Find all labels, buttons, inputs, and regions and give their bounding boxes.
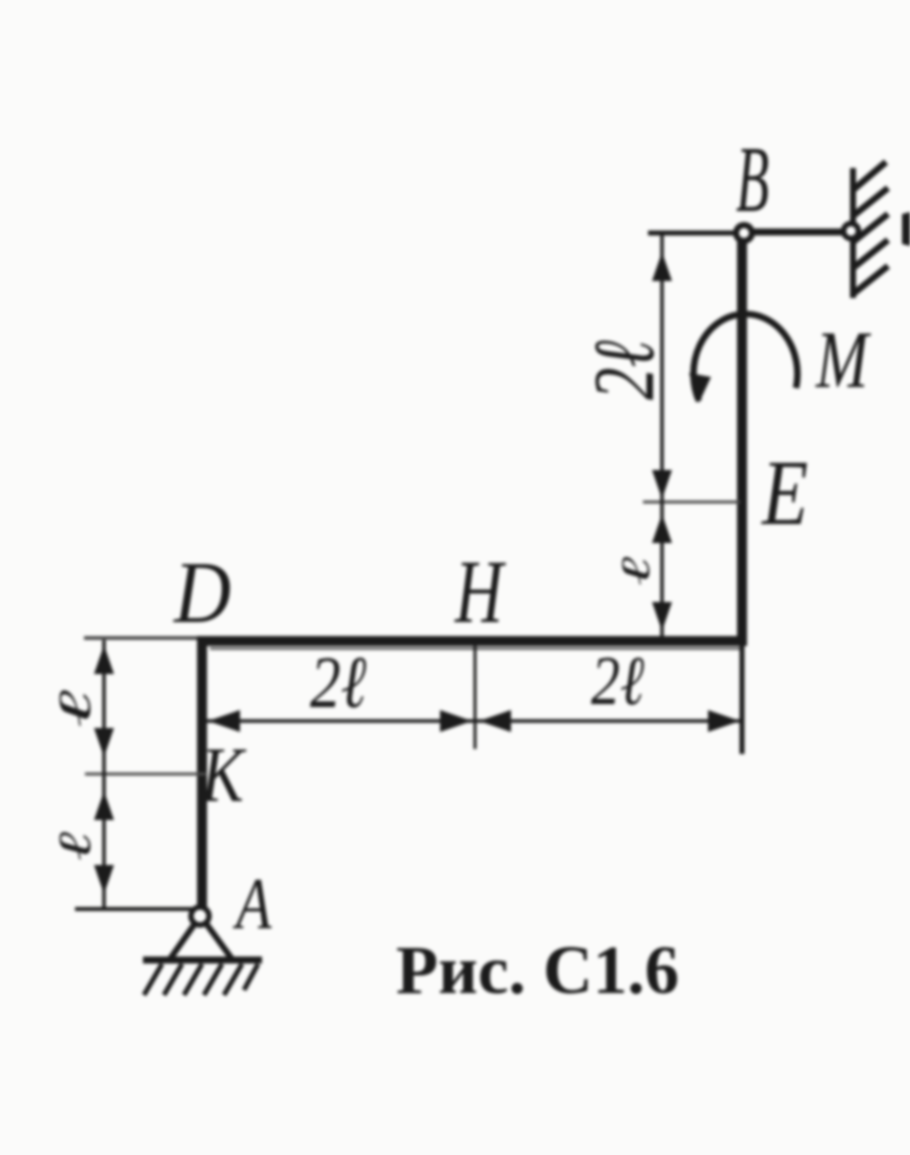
bar corner-B (right vertical member) (737, 233, 747, 645)
pin B (hinge circle) (736, 225, 752, 241)
svg-text:2ℓ: 2ℓ (310, 641, 367, 724)
bar AD (left vertical member) (197, 637, 207, 908)
arrow down to corner (652, 602, 672, 631)
moment M arrowhead (689, 373, 711, 403)
bar DH-corner (horizontal member) (197, 636, 747, 646)
tick at K level (85, 773, 206, 776)
arrow left from H (479, 710, 511, 732)
cut-off glyph at right edge (902, 212, 910, 246)
svg-text:B: B (736, 128, 769, 232)
arrow down to A level (94, 865, 114, 894)
svg-text:M: M (815, 314, 871, 405)
arrow up from K level (94, 791, 114, 820)
svg-text:E: E (761, 442, 808, 545)
svg-text:H: H (454, 544, 506, 643)
svg-text:ℓ: ℓ (614, 557, 659, 586)
arrow right to H (440, 710, 472, 732)
tick at A level (75, 907, 194, 911)
right dimension line B-corner (660, 235, 664, 639)
svg-text:2ℓ: 2ℓ (576, 340, 672, 400)
wall line (850, 168, 856, 298)
wall hatching (853, 162, 888, 294)
link rod B-wall (744, 229, 852, 236)
pin A circle (191, 907, 209, 925)
left dimension line (102, 640, 106, 907)
support A ground line (143, 957, 262, 964)
extension line at H (474, 645, 477, 749)
bottom dimension line D-corner (206, 719, 740, 723)
svg-text:A: A (232, 864, 272, 945)
svg-text:K: K (200, 732, 247, 818)
svg-text:Рис. С1.6: Рис. С1.6 (396, 932, 679, 1008)
arrow up from E level (652, 514, 672, 543)
scan ghost under horizontal bar (210, 647, 740, 650)
arrow right to corner (708, 710, 740, 732)
extension line below corner (740, 645, 745, 754)
support A triangle (170, 922, 232, 959)
svg-text:D: D (173, 544, 231, 642)
arrow up to D level (94, 645, 114, 674)
svg-text:ℓ: ℓ (49, 831, 100, 861)
svg-text:ℓ: ℓ (49, 690, 100, 728)
tick at E level (643, 501, 740, 504)
wall pin circle (844, 224, 859, 239)
arrow down to E level (652, 470, 672, 499)
arrow down to K level (94, 728, 114, 757)
moment M arc (693, 314, 797, 401)
extension line left of D (84, 636, 197, 640)
svg-text:2ℓ: 2ℓ (591, 642, 644, 719)
arrow left to D bar (208, 710, 240, 732)
arrow up to B level (652, 252, 672, 281)
support A hatching (144, 964, 258, 995)
tick at B level (648, 231, 736, 236)
